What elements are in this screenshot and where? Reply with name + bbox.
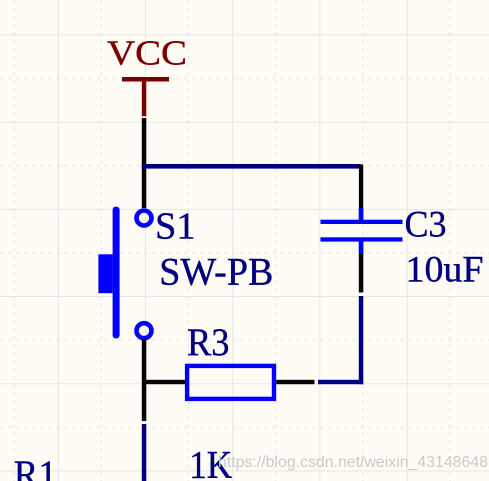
svg-text:https://blog.csdn.net/weixin_4: https://blog.csdn.net/weixin_43148648 <box>218 454 488 471</box>
svg-text:R3: R3 <box>187 321 230 364</box>
svg-text:R1: R1 <box>14 453 57 481</box>
svg-text:S1: S1 <box>155 206 196 248</box>
svg-text:10uF: 10uF <box>406 248 484 289</box>
svg-text:SW-PB: SW-PB <box>159 250 273 293</box>
svg-text:C3: C3 <box>405 205 447 246</box>
svg-text:VCC: VCC <box>107 34 187 73</box>
